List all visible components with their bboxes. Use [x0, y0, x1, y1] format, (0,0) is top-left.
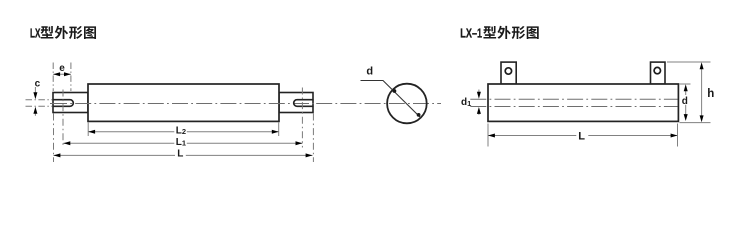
svg-text:LX–1: LX–1 [460, 26, 482, 41]
svg-text:LX: LX [30, 26, 41, 41]
svg-text:L: L [578, 130, 585, 142]
svg-text:L2: L2 [176, 125, 186, 136]
svg-text:h: h [707, 88, 714, 100]
svg-text:e: e [59, 63, 65, 74]
svg-text:d: d [682, 96, 688, 107]
svg-text:L: L [177, 149, 183, 160]
svg-text:c: c [35, 78, 41, 89]
svg-text:d: d [366, 65, 373, 77]
svg-text:L1: L1 [176, 137, 186, 148]
svg-text:d1: d1 [461, 97, 471, 108]
